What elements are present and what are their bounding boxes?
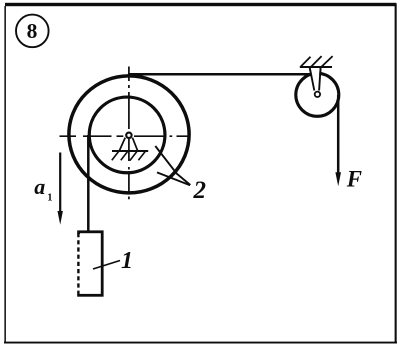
svg-text:8: 8 [27, 19, 38, 43]
svg-text:2: 2 [193, 177, 207, 204]
pivot support triangle of pulley 2 [119, 138, 137, 151]
clevis bracket sides redrawn [310, 67, 321, 91]
small pulley pin [315, 92, 320, 97]
arrowhead of a1 [58, 211, 63, 225]
problem number badge circle [16, 15, 49, 48]
acceleration arrow a1 [59, 153, 61, 216]
svg-text:1: 1 [47, 193, 52, 204]
wire: rope down from small pulley (force rope) [337, 95, 340, 179]
leader line to label 2 (inner circle) [155, 146, 190, 185]
ceiling line over small pulley [300, 66, 332, 68]
wire: rope down from inner pulley to block 1 [87, 135, 90, 233]
pivot ground line [112, 150, 148, 152]
outer circle of double pulley 2 [69, 76, 189, 193]
leader line to label 1 [93, 261, 120, 270]
vertical centerline of pulley 2 [128, 67, 130, 200]
leader line to label 2 (outer circle) [157, 172, 190, 185]
inner circle of double pulley 2 [89, 97, 165, 173]
clevis bracket of small pulley [310, 67, 321, 89]
small pulley circle [296, 73, 339, 116]
clevis inner white [311, 68, 320, 88]
pivot pin of pulley 2 [126, 133, 131, 138]
wire: horizontal rope from pulley 2 to small pulley [128, 73, 311, 76]
block 1 (load) [78, 232, 102, 295]
arrowhead of force F [335, 172, 341, 186]
svg-text:1: 1 [121, 248, 133, 274]
svg-text:F: F [346, 167, 362, 192]
horizontal centerline of pulley 2 [60, 135, 191, 137]
ceiling hatching [301, 56, 333, 67]
pivot ground hatching [112, 151, 146, 160]
svg-text:a: a [34, 174, 45, 199]
